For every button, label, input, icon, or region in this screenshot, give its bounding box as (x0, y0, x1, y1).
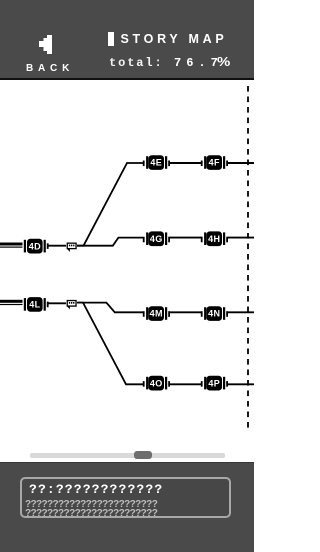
wire: 4L to dialog icon (48, 302, 67, 304)
svg-text:4D: 4D (29, 241, 41, 251)
unknown description row 2 (25, 508, 157, 519)
total percent value (174, 56, 223, 70)
svg-text:4P: 4P (208, 378, 220, 388)
svg-text:4O: 4O (150, 378, 163, 388)
total label (109, 56, 164, 70)
wire: 4F to right edge (228, 162, 255, 164)
wire: branch from 4D icon to 4G (step up) (77, 238, 143, 246)
chapter boundary dashed line (247, 86, 249, 432)
wire: 4N to right edge (228, 311, 255, 313)
node 4G (143, 231, 170, 246)
unknown title text (29, 482, 163, 497)
dialog icon after 4L (67, 300, 77, 309)
wire: branch up from 4D icon to 4E (77, 163, 143, 246)
node 4H (201, 231, 228, 246)
node 4F (201, 155, 228, 170)
wire: 4O to 4P (170, 383, 202, 385)
wire: 4E to 4F (170, 162, 202, 164)
STORY MAP title (121, 32, 228, 46)
svg-text:4M: 4M (150, 309, 163, 319)
wire: 4G to 4H (170, 237, 202, 239)
wire: branch down from 4L icon to 4O (78, 303, 143, 385)
svg-text:4N: 4N (208, 309, 220, 319)
dialog icon after 4D (67, 243, 77, 252)
svg-text:4E: 4E (150, 158, 162, 168)
node 4N (201, 306, 228, 321)
node 4E (143, 155, 170, 170)
node 4P (201, 376, 228, 391)
title bar tick (108, 32, 114, 47)
story map flowchart (0, 80, 254, 451)
info box frame (20, 477, 231, 518)
svg-text:4G: 4G (150, 234, 163, 244)
wire: 4D to dialog icon (48, 245, 67, 247)
node 4L (24, 297, 49, 312)
wire: double line into node 4L (0, 300, 23, 303)
wire: 4H to right edge (228, 237, 255, 239)
wire: 4M to 4N (170, 311, 202, 313)
scrollbar track (30, 453, 225, 458)
node 4O (143, 376, 170, 391)
node 4D (24, 239, 49, 254)
header bottom black line (0, 78, 254, 81)
bottom info panel (0, 462, 254, 552)
unknown description row 1 (25, 499, 157, 510)
wire: 4P to right edge (228, 383, 255, 385)
svg-text:4F: 4F (209, 158, 220, 168)
wire: double line into node 4D (0, 243, 23, 246)
scrollbar thumb (134, 451, 152, 459)
svg-text:4L: 4L (29, 300, 40, 310)
percent sign (217, 54, 230, 69)
svg-text:4H: 4H (208, 234, 220, 244)
header bar (0, 0, 254, 78)
wire: branch from 4L icon to 4M (step down) (77, 303, 143, 313)
BACK label (26, 63, 74, 74)
node 4M (143, 306, 170, 321)
back icon (37, 33, 54, 55)
